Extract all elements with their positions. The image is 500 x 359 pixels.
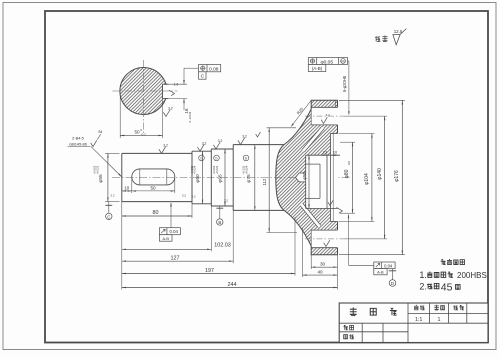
svg-text:b: b xyxy=(201,157,203,161)
svg-text:+0.002: +0.002 xyxy=(212,165,216,174)
svg-text:GB145-86: GB145-86 xyxy=(69,141,87,146)
svg-text:3.2: 3.2 xyxy=(218,139,223,143)
svg-text:30: 30 xyxy=(320,262,326,267)
svg-text:+0.011: +0.011 xyxy=(242,165,246,174)
svg-text:2-B4-5: 2-B4-5 xyxy=(72,136,84,141)
svg-text:3.2: 3.2 xyxy=(242,135,247,139)
svg-text:M: M xyxy=(341,60,344,64)
svg-text:B: B xyxy=(218,220,221,225)
svg-text:+0.002: +0.002 xyxy=(93,165,97,174)
svg-text:1.: 1. xyxy=(419,270,427,280)
svg-text:112: 112 xyxy=(262,178,267,185)
svg-text:φ176: φ176 xyxy=(394,170,400,182)
svg-text:-0.2: -0.2 xyxy=(141,132,147,136)
svg-text:φ140: φ140 xyxy=(377,168,383,180)
svg-text:6-φ20H8: 6-φ20H8 xyxy=(342,75,347,92)
svg-text:3.2: 3.2 xyxy=(168,107,173,111)
svg-text:12.5: 12.5 xyxy=(394,29,403,34)
svg-text:244: 244 xyxy=(228,282,237,288)
svg-text:C: C xyxy=(107,214,110,219)
svg-text:197: 197 xyxy=(205,268,214,274)
svg-text:45: 45 xyxy=(441,281,453,293)
svg-text:1:1: 1:1 xyxy=(415,317,423,323)
svg-text:102.03: 102.03 xyxy=(214,242,231,248)
svg-text:40: 40 xyxy=(317,269,323,274)
svg-text:127: 127 xyxy=(171,256,180,262)
svg-text:3.2: 3.2 xyxy=(224,199,229,203)
svg-text:H8: H8 xyxy=(347,161,351,165)
svg-text:0.08: 0.08 xyxy=(209,66,219,72)
svg-text:3.2: 3.2 xyxy=(182,194,187,198)
svg-text:B4: B4 xyxy=(99,130,103,134)
svg-text:1.6: 1.6 xyxy=(174,83,179,87)
svg-text:φ50: φ50 xyxy=(302,172,307,180)
svg-text:A-B: A-B xyxy=(162,236,169,241)
svg-text:80: 80 xyxy=(153,210,159,216)
svg-text:13: 13 xyxy=(323,151,327,155)
svg-text:C: C xyxy=(201,74,205,80)
svg-text:0.04: 0.04 xyxy=(170,229,179,234)
svg-text:D: D xyxy=(391,281,394,286)
svg-text:3.2: 3.2 xyxy=(326,113,331,117)
svg-text:3.2: 3.2 xyxy=(202,141,207,145)
svg-text:200HBS: 200HBS xyxy=(457,271,487,280)
svg-text:b: b xyxy=(216,157,218,161)
svg-text:50: 50 xyxy=(134,130,140,135)
svg-text:A-B: A-B xyxy=(377,270,384,275)
svg-text:3.2: 3.2 xyxy=(110,194,115,198)
svg-text:+0.011: +0.011 xyxy=(190,165,194,174)
svg-text:2.: 2. xyxy=(419,282,427,292)
svg-text:(A-B): (A-B) xyxy=(312,66,323,71)
svg-text:1: 1 xyxy=(438,317,441,323)
svg-text:0.04: 0.04 xyxy=(384,263,393,268)
svg-text:50: 50 xyxy=(150,185,156,190)
svg-text:3.2: 3.2 xyxy=(163,144,168,148)
svg-text:10: 10 xyxy=(333,151,337,155)
svg-text:10: 10 xyxy=(124,185,129,190)
svg-text:3.2: 3.2 xyxy=(191,195,196,199)
svg-text:φ104: φ104 xyxy=(364,173,370,185)
svg-text:b: b xyxy=(245,157,247,161)
svg-text:0 -0.043: 0 -0.043 xyxy=(188,111,192,122)
svg-text:φ80: φ80 xyxy=(344,169,350,178)
